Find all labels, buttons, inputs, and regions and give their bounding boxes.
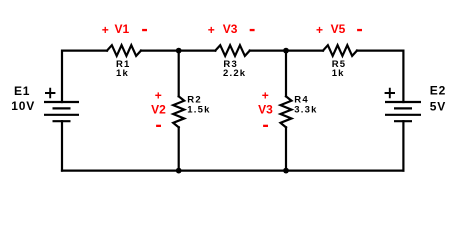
svg-text:E1: E1 [14, 84, 30, 98]
battery E1 plate long [44, 114, 79, 116]
resistor R4 zigzag [281, 96, 292, 127]
wire: top rail segment between R1 and R3 [141, 49, 215, 51]
resistor R5 zigzag [323, 45, 357, 56]
battery E1 plate short [53, 107, 71, 109]
svg-text:V2: V2 [151, 103, 166, 117]
svg-text:V3: V3 [258, 103, 273, 117]
voltage label minus sign for V1 [142, 29, 147, 31]
svg-text:+: + [208, 23, 215, 37]
svg-text:+: + [155, 88, 162, 102]
svg-text:2.2k: 2.2k [223, 68, 246, 79]
svg-text:3.3k: 3.3k [294, 104, 317, 115]
wire: top rail segment between R3 and R5 [250, 49, 323, 51]
svg-text:+: + [316, 23, 323, 37]
voltage label minus sign for V3 across R4 [263, 125, 268, 127]
resistor R3 zigzag [215, 45, 250, 56]
battery E2 plate long [385, 114, 421, 116]
resistor R1 zigzag [107, 45, 141, 56]
svg-text:E2: E2 [430, 84, 446, 98]
svg-text:1k: 1k [332, 68, 345, 79]
svg-text:10V: 10V [11, 99, 35, 113]
battery E2 plate long top (+) [385, 101, 421, 103]
voltage label minus sign for V3 [250, 29, 255, 31]
wire: R4 branch from top node down [285, 51, 287, 97]
svg-text:1k: 1k [116, 68, 129, 79]
bottom junction dot under R4 [283, 168, 289, 174]
voltage label minus sign for V5 [357, 29, 362, 31]
svg-text:+: + [262, 88, 269, 102]
wire: top rail right segment [357, 51, 403, 102]
wire: R4 bottom to bottom rail [285, 127, 287, 170]
bottom junction dot under R2 [176, 168, 182, 174]
wire: R2 bottom to bottom rail [178, 127, 180, 170]
svg-text:5V: 5V [430, 99, 446, 113]
svg-text:V1: V1 [114, 22, 129, 36]
wire: left branch battery E1 to bottom rail [61, 121, 63, 170]
battery E2 plate short bottom (-) [394, 120, 412, 122]
battery E1 plate long top (+) [44, 101, 79, 103]
node A junction dot (R1/R2/R3 top) [176, 48, 182, 54]
wire: R2 branch from top node down [178, 51, 180, 97]
svg-text:V3: V3 [223, 22, 238, 36]
node B junction dot (R3/R4/R5 top) [283, 48, 289, 54]
wire: top rail left segment [62, 51, 107, 102]
svg-text:1.5k: 1.5k [187, 104, 210, 115]
svg-text:V5: V5 [331, 22, 346, 36]
battery E1 plus polarity mark [45, 88, 55, 98]
battery E2 plus polarity mark [385, 88, 395, 98]
battery E2 plate short [394, 107, 412, 109]
battery E1 plate short bottom (-) [53, 120, 71, 122]
voltage label minus sign for V2 [156, 125, 161, 127]
wire: bottom rail [62, 170, 403, 172]
wire: right branch battery E2 to bottom rail [402, 121, 404, 170]
resistor R2 zigzag [173, 96, 184, 127]
svg-text:+: + [102, 23, 109, 37]
